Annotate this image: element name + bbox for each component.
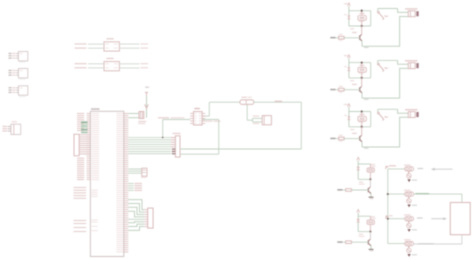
diode T5 [357,216,359,231]
wire branches join T4 [358,178,370,180]
wire collector T4 [369,179,371,186]
connector X4 [11,124,21,134]
net A vertical [300,102,302,149]
IC1 left pins [87,113,91,115]
terminal block dark X7 [416,112,418,117]
VCC symbol T4 [357,157,360,160]
wire base T4 [351,189,368,191]
net label K3 [336,138,339,140]
base resistor T4 [346,189,352,192]
LED supply vertical wire [387,169,389,244]
wire coil right K1 [370,11,372,26]
wire to X7 pin1 K3 [398,109,409,113]
DC/DC converter U3 left wires [88,63,104,65]
wire coil bottom K2 [349,77,371,79]
wire top net to IC2 [208,102,210,116]
DC/DC converter U3 [104,62,119,71]
net label flag row3 [386,216,389,219]
junction coil top K3 [361,110,363,112]
wire base K1 [344,37,360,39]
junction LED2 [387,193,389,195]
DC/DC converter U2 [104,42,119,51]
wire VCC rail T4 [357,161,359,164]
wire branches join T5 [358,231,370,233]
ground T4 [369,196,374,198]
crystal Q2 wires [128,113,139,115]
wire VCC rail K3 [348,107,350,112]
base resistor R2 [339,88,345,91]
wire LED2 down [408,196,410,198]
IC1 left outside labels [77,113,84,114]
wire IC2 left net [163,119,191,121]
wire emitter K1 [361,41,363,46]
wire LED4 down [408,246,410,248]
wire to X5 pin1 K1 [398,9,409,13]
wire coil top K1 [349,10,371,12]
ground arrow LED2 [407,205,410,208]
ground arrow LED1 [407,179,410,182]
wire to LED2 [388,193,405,195]
junction coil bottom K3 [361,126,363,128]
wire coil top K2 [349,62,371,64]
net label arrow row3 [417,217,423,218]
IC1 right pins [124,113,129,115]
net label arrow row1 [418,168,424,169]
crystal Q3 [262,116,271,125]
wire contact top K2 [378,59,398,61]
connector SV2 [148,208,153,228]
transistor T5 [367,240,369,244]
wire to X6 pin1 K2 [398,60,409,64]
connector X6 [408,63,415,69]
net label K1 [336,37,339,39]
photodiode LED2 [407,199,412,204]
wire emitter T5 [370,246,372,250]
wire IC2 net down to bus [162,120,164,138]
diode D2 [348,63,350,78]
junction T4 [369,178,371,180]
relay coil K1 [358,16,366,21]
connector SV1 [74,134,79,156]
wire coil bottom K3 [349,126,371,128]
ground T5 [369,248,374,250]
wire collector K3 [361,127,363,135]
LED3 lamp [405,217,414,221]
junction [162,137,164,139]
load box X8 [450,203,470,235]
wire X7 pin2 K3 [362,117,408,147]
pin header JP1 [175,136,180,157]
VCC symbol T5 [357,210,360,213]
transistor T1 [359,35,361,39]
base resistor T5 [346,241,352,244]
coil element T5 [369,216,371,220]
VCC symbol K3 [348,104,351,107]
junction T5 [369,231,371,233]
net A top wire [209,101,240,103]
transistor T2 [359,87,361,91]
relay contact K1 [378,11,380,13]
relay contact K3 [378,112,380,114]
wire base K3 [344,138,360,140]
wire to LED3 [388,218,405,220]
net A header to loop [180,148,301,150]
ground arrow LED4 [407,254,410,257]
wire contact up K2 [377,60,379,63]
DC/DC converter U2 left wires [88,43,104,45]
photodiode LED1 [407,173,412,178]
photodiode LED3 [407,223,412,228]
small component on pins [142,168,147,176]
net B header to IC2 [180,153,219,155]
transistor T3 [359,136,361,140]
wire coil right K2 [370,63,372,78]
connector X1 [18,52,27,61]
relay coil K3 [358,116,366,121]
net label T4 [343,189,346,191]
wire LED4 to load box [414,243,462,245]
wire coil right K3 [370,112,372,127]
connector X2 [18,69,27,78]
junction coil top K2 [361,61,363,63]
wire LED1 down [408,171,410,173]
wire emitter T4 [370,193,372,197]
wire VCC rail T5 [357,213,359,216]
resistor R7 [240,100,254,105]
IC1 left pin names [92,112,100,115]
LED4 lamp [405,241,414,245]
wire emitter K2 [361,93,363,98]
wire top T5 [358,215,370,217]
IC1 lower-left net labels [74,187,87,188]
wire resistor tap down [246,104,248,120]
wire contact top K1 [378,8,398,10]
wire base K2 [344,89,360,91]
relay coil K2 [358,67,366,72]
coil element T4 [369,164,371,168]
wire collector K1 [361,26,363,34]
wire top T4 [358,163,370,165]
diode D3 [348,112,350,127]
ground arrow LED3 [407,229,410,232]
net label K2 [336,89,339,91]
VCC symbol K2 [348,55,351,58]
staircase wires IC1 to SV2 [128,200,144,210]
junction coil bottom K2 [361,77,363,79]
junction coil bottom K1 [361,25,363,27]
wire coil bottom K1 [349,25,371,27]
wire base T5 [351,241,368,243]
wire X6 pin2 K2 [362,68,408,98]
terminal block dark X6 [416,63,418,68]
terminal block dark X5 [416,11,418,16]
photodiode LED4 [407,248,412,253]
RTC IC2 [194,112,203,126]
LED2 lamp [405,192,414,196]
wires into crystal Q3 [253,117,263,119]
diode D1 [348,11,350,26]
wire contact up K1 [377,9,379,12]
relay contact K2 [378,63,380,65]
wire LED3 down [408,221,410,223]
wire contact top K3 [378,108,398,110]
IC1 right net stubs with labels [128,168,142,170]
base resistor R3 [339,137,345,140]
connector X3 [18,86,27,95]
microcontroller IC1 body [90,111,123,256]
wire VCC rail K1 [348,6,350,11]
wire VCC rail K2 [348,58,350,63]
VCC symbol K1 [348,3,351,6]
transistor T4 [367,188,369,192]
VCC symbol [145,87,149,88]
wire resistor to loop [254,101,302,103]
wire to LED1 [388,168,405,170]
wire emitter K3 [361,142,363,147]
connector X5 [408,11,415,17]
IC1 right pin names [116,112,123,115]
wire collector T5 [369,232,371,239]
bus wires IC1 to JP1 [128,137,171,139]
junction LED3 [387,218,389,220]
wire LED2 to load box [414,193,462,195]
wire coil top K3 [349,111,371,113]
net label flag row1 [386,166,389,169]
connector X7 [408,112,415,118]
wire to LED4 [388,243,405,245]
ceramic resonator Q1 [81,121,88,123]
junction coil top K1 [361,10,363,12]
wire X5 pin2 K1 [362,17,408,47]
wire VCC to crystal [146,96,148,118]
base resistor R1 [339,36,345,39]
net label T5 [343,241,346,243]
DC/DC converter U2 right wires [119,43,139,45]
crystal Q2 [139,112,144,119]
LED1 lamp [405,167,414,171]
diode T4 [357,164,359,179]
diode D4 [145,104,149,108]
wire collector K2 [361,78,363,86]
wire contact up K3 [377,109,379,112]
DC/DC converter U3 right wires [119,63,139,65]
